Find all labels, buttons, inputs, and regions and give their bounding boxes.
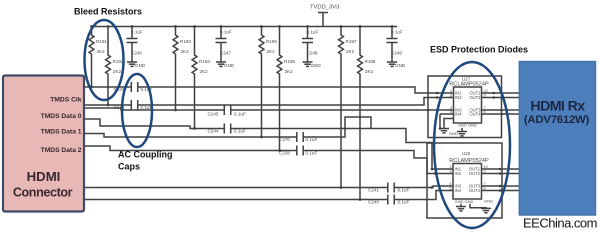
svg-text:GND GND: GND GND <box>458 123 477 128</box>
svg-text:TVDD_3V3: TVDD_3V3 <box>310 5 339 11</box>
resistor R196 2K2 <box>277 27 282 151</box>
svg-text:TMDS Clk: TMDS Clk <box>50 97 81 104</box>
svg-text:C245: C245 <box>208 112 219 117</box>
capacitor C246 0.1uF decoupling to GND <box>131 27 133 39</box>
svg-text:0.1uF: 0.1uF <box>306 150 318 155</box>
wire U27 outputs to HDMI Rx <box>488 92 520 94</box>
resistor R191 2K2 <box>89 27 94 88</box>
svg-text:2: 2 <box>450 92 452 97</box>
svg-text:2K2: 2K2 <box>285 69 294 74</box>
capacitor C240 0.1uF AC coupling <box>387 195 389 205</box>
svg-text:Connector: Connector <box>13 186 73 200</box>
svg-text:C247: C247 <box>220 51 231 56</box>
capacitor C248 0.1uF decoupling to GND <box>307 27 309 39</box>
svg-text:R194: R194 <box>199 59 210 64</box>
svg-text:AC Coupling: AC Coupling <box>118 149 173 159</box>
svg-text:2K2: 2K2 <box>97 49 106 54</box>
wire TMDS Clk+ row / node Clk+ <box>84 86 131 88</box>
resistor R194 2K2 <box>192 27 197 129</box>
svg-text:2K2: 2K2 <box>267 49 276 54</box>
svg-text:R191: R191 <box>96 39 107 44</box>
svg-text:TMDS Data 1: TMDS Data 1 <box>41 129 82 136</box>
capacitor C270 0.1uF AC coupling <box>296 132 298 142</box>
svg-text:ESD Protection Diodes: ESD Protection Diodes <box>430 45 528 55</box>
svg-text:2K2: 2K2 <box>200 69 209 74</box>
svg-text:TMDS Data 2: TMDS Data 2 <box>41 147 82 154</box>
wire U28 outputs to HDMI Rx <box>488 168 520 170</box>
svg-text:HDMI: HDMI <box>27 169 61 184</box>
svg-text:R196: R196 <box>284 59 295 64</box>
svg-text:C249: C249 <box>391 51 402 56</box>
wire power bus TVDD_3V3 rail <box>91 26 397 28</box>
svg-text:GND: GND <box>135 63 146 68</box>
svg-text:Bleed Resistors: Bleed Resistors <box>74 7 142 17</box>
svg-text:9: 9 <box>484 168 486 173</box>
svg-text:Caps: Caps <box>118 162 140 172</box>
svg-text:0.1uF: 0.1uF <box>398 199 410 204</box>
wire TMDS Data2- row / node D2- <box>84 199 388 201</box>
svg-text:(ADV7612W): (ADV7612W) <box>524 114 590 126</box>
annotation ellipse around ESD diodes <box>434 62 510 228</box>
capacitor C242 0.1uF AC coupling <box>130 100 132 110</box>
capacitor C244 0.1uF AC coupling <box>223 124 225 134</box>
svg-text:0.1uF: 0.1uF <box>220 30 232 35</box>
svg-text:EEChina.com: EEChina.com <box>523 216 597 231</box>
svg-text:OUT2: OUT2 <box>469 95 481 100</box>
svg-text:OUT4: OUT4 <box>469 112 481 117</box>
annotation ellipse around bleed resistors <box>85 20 124 100</box>
svg-text:0.1uF: 0.1uF <box>391 30 403 35</box>
svg-text:0.1uF: 0.1uF <box>234 128 246 133</box>
wire TMDS Clk- row / node Clk- <box>84 104 131 106</box>
IC U27 body <box>454 87 482 123</box>
wire TMDS Data0+ row / node D0+ <box>84 108 224 110</box>
svg-text:0.1uF: 0.1uF <box>131 30 143 35</box>
capacitor C245 0.1uF AC coupling <box>223 105 225 115</box>
capacitor C238 0.1uF AC coupling <box>296 146 298 156</box>
wire TMDS Data1+ row / node D1+ <box>84 134 297 138</box>
svg-text:TMDS Data 0: TMDS Data 0 <box>41 113 82 120</box>
svg-text:GND: GND <box>395 63 406 68</box>
svg-text:0.1uF: 0.1uF <box>307 30 319 35</box>
svg-text:6: 6 <box>484 185 486 190</box>
svg-text:GND: GND <box>449 131 458 136</box>
svg-text:GND: GND <box>224 63 235 68</box>
svg-text:GND GND: GND GND <box>455 199 474 204</box>
ground at U27 GND pins <box>461 128 463 132</box>
svg-text:0.1uF: 0.1uF <box>306 137 318 142</box>
svg-text:C241: C241 <box>368 187 379 192</box>
svg-text:2K2: 2K2 <box>346 49 355 54</box>
capacitor C249 0.1uF decoupling to GND <box>391 27 393 39</box>
capacitor C247 0.1uF decoupling to GND <box>220 27 222 39</box>
svg-text:C270: C270 <box>279 137 290 142</box>
svg-text:GND: GND <box>484 199 493 204</box>
svg-text:C248: C248 <box>307 51 318 56</box>
svg-text:R198: R198 <box>365 59 376 64</box>
HDMI Connector block <box>3 76 84 212</box>
IC U28 body <box>453 164 482 200</box>
resistor R193 2K2 <box>173 27 178 111</box>
svg-text:OUT4: OUT4 <box>469 188 481 193</box>
capacitor C243 0.1uF AC coupling <box>130 82 132 92</box>
svg-text:2K2: 2K2 <box>365 69 374 74</box>
svg-text:R195: R195 <box>266 39 277 44</box>
svg-text:C246: C246 <box>131 51 142 56</box>
svg-text:IN2: IN2 <box>455 95 462 100</box>
wire TMDS Data0- row / node D0- <box>84 119 224 129</box>
svg-text:2K2: 2K2 <box>181 49 190 54</box>
resistor R197 2K2 <box>339 27 344 188</box>
svg-text:C240: C240 <box>368 199 379 204</box>
resistor R192 2K2 <box>106 27 111 106</box>
svg-text:IN4: IN4 <box>455 188 462 193</box>
resistor R198 2K2 <box>358 27 363 200</box>
svg-text:5: 5 <box>450 109 452 114</box>
svg-text:R197: R197 <box>346 39 357 44</box>
wire TMDS Data1- row / node D1- <box>84 146 297 151</box>
resistor R195 2K2 <box>259 27 264 138</box>
svg-text:HDMI Rx: HDMI Rx <box>530 98 585 114</box>
svg-text:GND: GND <box>311 63 322 68</box>
wire TMDS Data2+ row / node D2+ <box>84 187 388 189</box>
svg-text:IN2: IN2 <box>455 171 462 176</box>
ground at U27 pin3 <box>444 119 454 129</box>
ESD block outer box U28 <box>427 143 502 218</box>
svg-text:6: 6 <box>484 109 486 114</box>
HDMI Rx block ADV7612W <box>519 62 595 216</box>
svg-text:OUT2: OUT2 <box>469 171 481 176</box>
ground at U28 GND pins <box>460 204 462 207</box>
capacitor C241 0.1uF AC coupling <box>387 183 389 193</box>
junction dots at ESD clamp inputs <box>436 92 439 95</box>
svg-text:9: 9 <box>484 92 486 97</box>
svg-text:0.1uF: 0.1uF <box>398 187 410 192</box>
svg-text:5: 5 <box>449 185 451 190</box>
svg-text:U28: U28 <box>462 151 471 156</box>
annotation ellipse around AC coupling caps <box>122 74 152 147</box>
svg-text:IN4: IN4 <box>455 112 462 117</box>
svg-text:R193: R193 <box>180 39 191 44</box>
svg-text:0.1uF: 0.1uF <box>234 112 246 117</box>
svg-text:2: 2 <box>449 168 451 173</box>
svg-text:C238: C238 <box>279 150 290 155</box>
ESD block outer box U27 <box>428 76 502 138</box>
svg-text:C244: C244 <box>208 128 219 133</box>
svg-text:2K2: 2K2 <box>113 69 122 74</box>
